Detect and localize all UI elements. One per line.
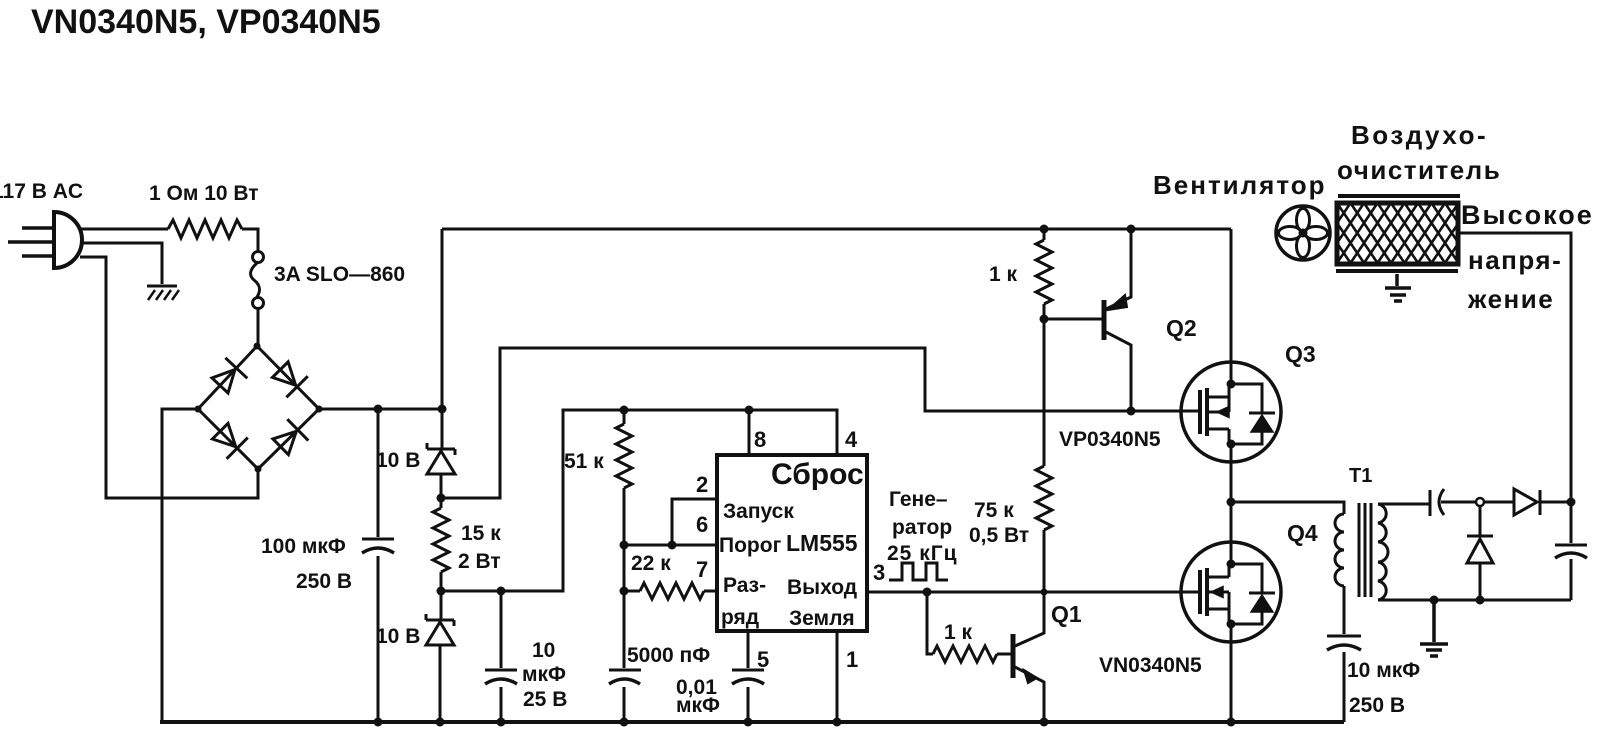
svg-text:1 к: 1 к — [989, 263, 1018, 286]
diode D1 (bridge upper-left) — [212, 358, 247, 393]
wire Q3 drain to Q4 drain — [1230, 444, 1233, 561]
resistor R3 51 к — [623, 410, 626, 424]
wire pin 8 stub — [748, 410, 751, 455]
transistor Q3 VP0340N5 P-MOSFET — [1181, 362, 1281, 462]
resistor R6 75 к 0,5 Вт — [1043, 530, 1046, 592]
node Vcc rail / pin8 — [745, 406, 754, 415]
wire resistor to fuse — [242, 229, 258, 251]
node main rail junction — [438, 405, 447, 414]
wire node B to 555 Vcc rail — [441, 410, 837, 591]
svg-text:10 В: 10 В — [376, 625, 420, 648]
zener diode ZD1 10 В — [427, 443, 455, 498]
wire secondary bottom return — [1378, 599, 1571, 602]
svg-text:3A SLO—860: 3A SLO—860 — [274, 263, 405, 286]
svg-text:Выход: Выход — [787, 576, 857, 599]
svg-text:6: 6 — [696, 512, 708, 537]
svg-text:1 Ом 10 Вт: 1 Ом 10 Вт — [149, 182, 259, 205]
svg-text:Q4: Q4 — [1287, 520, 1318, 546]
diode D5 (HV series) — [1514, 489, 1571, 515]
node Q2 collector / Q3 gate line — [1127, 407, 1136, 416]
capacitor C6 10 мкФ 250 В (primary return) — [1327, 586, 1361, 722]
wire plug earth lead — [80, 243, 162, 284]
svg-text:ратор: ратор — [892, 516, 952, 539]
ground (air cleaner) — [1385, 274, 1411, 301]
wire main vertical rail up to top rail — [441, 229, 444, 448]
node totem output — [1227, 498, 1236, 507]
svg-text:Порог: Порог — [719, 534, 782, 557]
svg-text:8: 8 — [754, 427, 766, 452]
node C3 bottom — [497, 718, 506, 727]
node Q4 ground — [1227, 718, 1236, 727]
diode D3 (bridge lower-left) — [212, 423, 247, 458]
svg-text:250 В: 250 В — [1349, 694, 1405, 717]
wire node A over to mid rail — [441, 348, 1201, 498]
transformer T1 core — [1359, 503, 1371, 597]
capacitor C4 5000 пФ — [609, 670, 641, 722]
wire pin 1 stub to ground rail — [836, 631, 839, 722]
svg-text:5000 пФ: 5000 пФ — [627, 644, 710, 667]
node ZD2 bottom — [436, 718, 445, 727]
node bracket joint — [668, 541, 677, 550]
svg-text:3: 3 — [873, 560, 885, 585]
node Q1 emitter ground — [1040, 718, 1049, 727]
svg-text:Запуск: Запуск — [723, 500, 794, 523]
svg-text:LM555: LM555 — [786, 530, 858, 556]
svg-text:117 В AC: 117 В AC — [0, 180, 83, 203]
transformer T1 primary winding — [1335, 514, 1344, 586]
wire top rail elbow down to Q3 — [1230, 229, 1233, 384]
svg-text:0,5 Вт: 0,5 Вт — [969, 524, 1029, 547]
capacitor C3 10 мкФ 25 В — [485, 591, 517, 722]
transistor Q4 VN0340N5 N-MOSFET — [1181, 542, 1281, 642]
wire secondary top to coupling cap — [1378, 503, 1430, 506]
waveform symbol 25 kHz square wave — [889, 563, 948, 580]
wire Q4 source to ground rail — [1230, 624, 1233, 722]
node R5 top rail — [1040, 225, 1049, 234]
node D6 bottom — [1476, 596, 1485, 605]
wire bridge minus to bottom rail — [162, 409, 198, 722]
diode D4 (bridge lower-right) — [273, 419, 308, 454]
svg-text:10: 10 — [532, 639, 555, 662]
transistor Q1 NPN — [1013, 592, 1044, 722]
wire output node to T1 primary — [1231, 502, 1344, 514]
svg-text:Раз-: Раз- — [723, 574, 766, 597]
node 10uF cap tap — [497, 587, 506, 596]
svg-text:T1: T1 — [1349, 465, 1372, 487]
transformer T1 secondary winding — [1378, 504, 1388, 600]
svg-text:VP0340N5: VP0340N5 — [1059, 428, 1161, 451]
node output / 1k tap — [923, 588, 932, 597]
svg-text:10 В: 10 В — [376, 449, 420, 472]
node 51k / pin6 — [620, 541, 629, 550]
node Q2 emitter top rail — [1127, 225, 1136, 234]
svg-text:4: 4 — [845, 427, 858, 452]
svg-text:VN0340N5: VN0340N5 — [1099, 654, 1202, 677]
svg-text:мкФ: мкФ — [676, 694, 720, 717]
wire bridge plus to main rail — [319, 408, 442, 411]
node Q1 collector / 75k / output line — [1041, 589, 1048, 596]
svg-text:7: 7 — [696, 557, 708, 582]
resistor R4 22 к — [624, 590, 640, 593]
svg-text:жение: жение — [1467, 284, 1554, 314]
transistor Q2 PNP — [1044, 229, 1131, 411]
ground (secondary) — [1420, 600, 1448, 656]
wire pin 3 output line to Q4 gate — [867, 591, 1200, 594]
node C5 bottom — [744, 718, 753, 727]
svg-text:Вентилятор: Вентилятор — [1153, 170, 1327, 200]
fuse F1 3A SLO-860 — [251, 252, 264, 347]
bridge rectifier diamond wires — [198, 346, 319, 469]
capacitor C8 (HV filter) — [1555, 502, 1587, 600]
diode D2 (bridge upper-right) — [272, 362, 307, 397]
node C4 bottom — [620, 718, 629, 727]
svg-text:2 Вт: 2 Вт — [458, 550, 501, 573]
node pin1 ground — [833, 718, 842, 727]
svg-text:250 В: 250 В — [296, 570, 352, 593]
node Q2 base junction — [1040, 315, 1049, 324]
svg-text:очиститель: очиститель — [1337, 155, 1501, 185]
svg-text:ряд: ряд — [721, 606, 759, 629]
svg-text:Высокое: Высокое — [1461, 200, 1594, 230]
op-amp U1 LM555 timer box — [717, 455, 867, 631]
svg-text:VN0340N5, VP0340N5: VN0340N5, VP0340N5 — [31, 3, 381, 41]
wire bottom ground rail — [160, 720, 1344, 724]
resistor R7 1 к (Q1 base) — [927, 592, 933, 654]
svg-text:25 кГц: 25 кГц — [887, 542, 958, 565]
node HV rectifier input (open) — [1476, 498, 1484, 506]
resistor R5 1 к (Q2 base pull-up) — [1043, 229, 1046, 240]
plug P1 (117V AC mains plug) — [8, 212, 82, 268]
wire HV lead up to air cleaner — [1458, 233, 1571, 502]
svg-text:Земля: Земля — [789, 607, 855, 630]
svg-text:Q3: Q3 — [1285, 341, 1316, 367]
node C1 top — [374, 405, 383, 414]
wire pin2/pin6 tie bracket — [624, 499, 717, 545]
wire cap to rectifier node — [1441, 501, 1514, 504]
wire top supply rail — [442, 228, 1231, 231]
svg-text:1 к: 1 к — [944, 621, 973, 644]
wire pin 5 stub and capacitor C5 0,01 мкФ — [732, 631, 764, 722]
resistor R2 15 к 2 Вт — [440, 498, 443, 508]
svg-text:75 к: 75 к — [974, 499, 1014, 522]
diode D6 (HV shunt) — [1467, 506, 1493, 600]
svg-text:51 к: 51 к — [564, 450, 604, 473]
fan symbol (Вентилятор) — [1276, 206, 1330, 260]
node Vcc rail / 51k — [620, 406, 629, 415]
svg-text:5: 5 — [757, 647, 769, 672]
svg-text:Q1: Q1 — [1051, 601, 1082, 627]
svg-text:10 мкФ: 10 мкФ — [1347, 659, 1420, 682]
svg-text:100 мкФ: 100 мкФ — [261, 535, 346, 558]
node A (zener1 / 15k junction) — [437, 494, 446, 503]
svg-text:Воздухо-: Воздухо- — [1351, 120, 1488, 150]
capacitor C1 100 мкФ 250 В — [362, 409, 394, 722]
svg-text:мкФ: мкФ — [522, 663, 566, 686]
node bridge vertices — [195, 343, 323, 473]
svg-text:22 к: 22 к — [631, 552, 671, 575]
svg-text:Q2: Q2 — [1166, 315, 1197, 341]
node B (15k / zener2 junction) — [437, 587, 446, 596]
svg-text:Гене–: Гене– — [889, 488, 948, 511]
resistor R1 1 Ом 10 Вт — [168, 220, 242, 238]
svg-text:напря-: напря- — [1468, 245, 1562, 275]
node C1 bottom — [374, 718, 383, 727]
node secondary ground tap — [1430, 596, 1439, 605]
node 51k / 22k — [620, 587, 629, 596]
node HV output — [1567, 498, 1576, 507]
wire plug live to resistor — [80, 228, 168, 231]
ground (mains earth) — [147, 286, 179, 300]
svg-text:Сброс: Сброс — [771, 458, 864, 491]
svg-text:2: 2 — [696, 472, 708, 497]
svg-text:1: 1 — [846, 647, 858, 672]
wire plug neutral down and under bridge — [80, 257, 258, 498]
svg-text:25 В: 25 В — [523, 688, 567, 711]
svg-text:15 к: 15 к — [461, 522, 501, 545]
zener diode ZD2 10 В — [426, 591, 454, 722]
capacitor C7 (HV coupling) — [1430, 489, 1444, 516]
